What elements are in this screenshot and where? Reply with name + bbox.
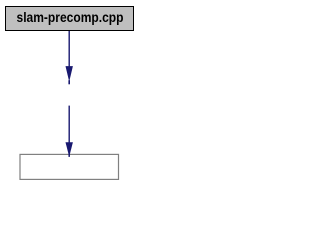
- svg-text:slam-precomp.cpp: slam-precomp.cpp: [17, 9, 124, 25]
- edge 2 arrowhead: [66, 142, 73, 157]
- node bottom (empty box): [20, 154, 119, 179]
- include dependency graph for slam-precomp.cpp: [0, 0, 140, 187]
- wire edge 1 shaft: [68, 31, 70, 67]
- edge 1 tip stub: [68, 80, 70, 84]
- edge 2 tip stub through border: [68, 153, 70, 157]
- node slam-precomp.cpp (current file, grey): [6, 7, 134, 31]
- edge 1 arrowhead: [66, 66, 73, 82]
- wire edge 2 shaft: [68, 106, 70, 143]
